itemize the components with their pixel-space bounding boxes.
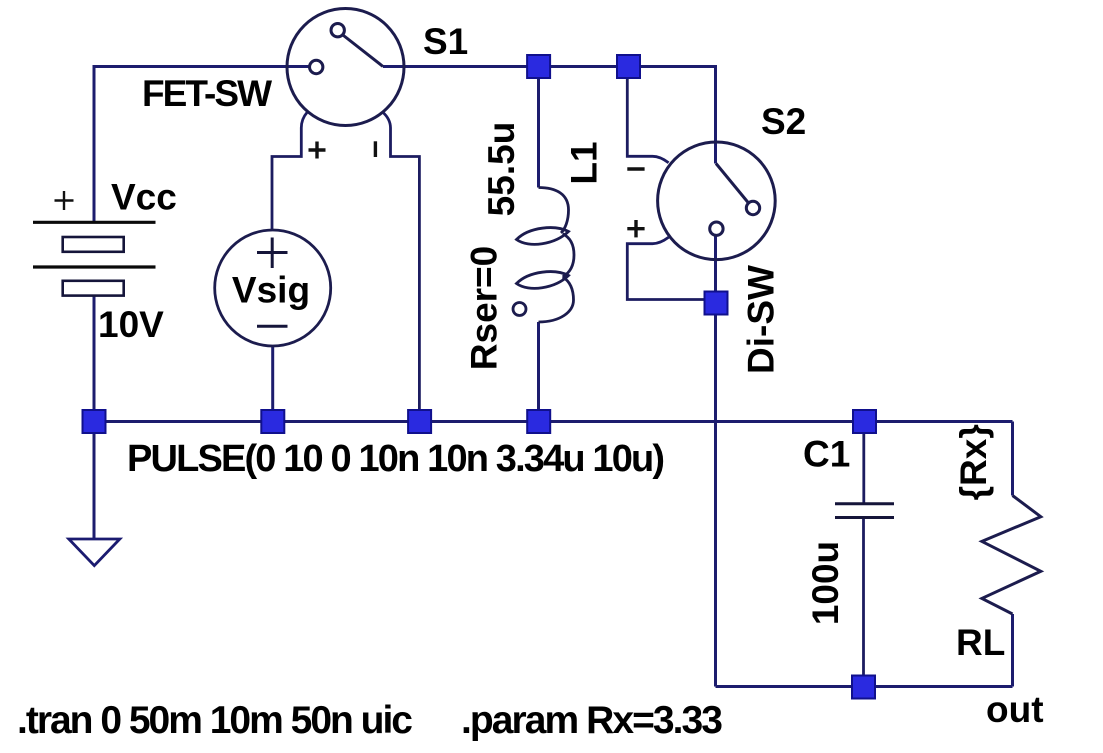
wire: S1 left control lead down to Vsig top <box>272 113 307 231</box>
wire: bottom rail y=421.5 from ground node to RL corner <box>94 420 1013 423</box>
Vsig minus mark <box>257 325 288 328</box>
wire: RL top stub <box>1011 422 1014 496</box>
svg-text:S1: S1 <box>423 21 468 62</box>
inductor L1 <box>513 188 574 323</box>
S2 plus control mark <box>627 220 644 237</box>
wire: S2 bottom terminal down through rail crossing to output rail <box>714 237 717 687</box>
svg-text:100u: 100u <box>805 541 846 625</box>
voltage source Vsig <box>215 230 331 346</box>
junction node: rail at L1 bottom <box>527 410 550 433</box>
junction node: ground rail at battery <box>83 410 106 433</box>
svg-text:10V: 10V <box>98 304 164 345</box>
battery plus polarity mark <box>55 191 74 210</box>
junction node: S2 bottom terminal / plus control <box>705 292 728 315</box>
junction node: output rail at C1 bottom <box>852 676 875 699</box>
ground symbol <box>69 539 120 566</box>
junction node: top rail / S2 minus branch <box>617 55 640 78</box>
wire: battery bottom to ground rail node <box>93 296 96 422</box>
S1 minus control mark (vertical tick) <box>374 141 377 157</box>
svg-text:C1: C1 <box>803 434 850 475</box>
svg-text:out: out <box>986 689 1044 730</box>
svg-text:.param Rx=3.33: .param Rx=3.33 <box>461 699 723 742</box>
svg-text:{Rx}: {Rx} <box>953 424 994 500</box>
wire: L1 top stub from node <box>537 67 540 188</box>
battery V1 (Vcc) <box>33 222 156 295</box>
Vsig plus mark <box>257 238 288 269</box>
wire: Vsig bottom to rail <box>271 346 274 422</box>
wire: S2 plus control lead down to junction <box>627 237 716 299</box>
S1 plus control mark <box>309 142 326 159</box>
svg-text:L1: L1 <box>564 141 605 184</box>
svg-text:Vsig: Vsig <box>232 270 310 311</box>
svg-text:.tran 0 50m 10m 50n uic: .tran 0 50m 10m 50n uic <box>17 699 413 742</box>
wire: C1 top stub <box>862 422 865 504</box>
svg-text:FET-SW: FET-SW <box>142 73 272 114</box>
resistor RL zigzag <box>982 496 1041 615</box>
wire: S2 minus control lead up to top rail node <box>627 67 668 163</box>
svg-text:RL: RL <box>956 622 1005 663</box>
svg-text:PULSE(0 10 0 10n 10n 3.34u 10u: PULSE(0 10 0 10n 10n 3.34u 10u) <box>127 438 665 480</box>
wire: top rail left segment from battery top corner to S1 left pin <box>94 67 310 223</box>
S2 minus control mark <box>627 167 644 170</box>
junction node: rail at Vsig bottom <box>261 410 284 433</box>
capacitor C1 <box>835 504 894 518</box>
svg-text:Rser=0: Rser=0 <box>464 246 505 370</box>
wire: top rail from S1 arm to S2 top corner <box>383 67 716 164</box>
svg-text:Di-SW: Di-SW <box>741 265 782 374</box>
wire: L1 bottom stub to rail <box>537 322 540 422</box>
svg-text:S2: S2 <box>761 101 806 142</box>
junction node: S1 output / L1 top <box>527 55 550 78</box>
wire: ground stub below rail <box>93 422 96 540</box>
svg-text:Vcc: Vcc <box>111 177 177 218</box>
svg-text:55.5u: 55.5u <box>481 122 522 217</box>
switch S1 body <box>287 9 404 126</box>
switch S2 body <box>658 142 776 260</box>
wire: bottom output rail <box>716 685 1013 688</box>
junction node: rail at S1 right control <box>408 410 431 433</box>
wire: S1 right control lead down to bottom rail <box>383 112 420 422</box>
wire: RL bottom stub <box>1011 614 1014 687</box>
wire: C1 bottom stub <box>862 518 865 688</box>
junction node: rail at C1 top <box>853 410 876 433</box>
